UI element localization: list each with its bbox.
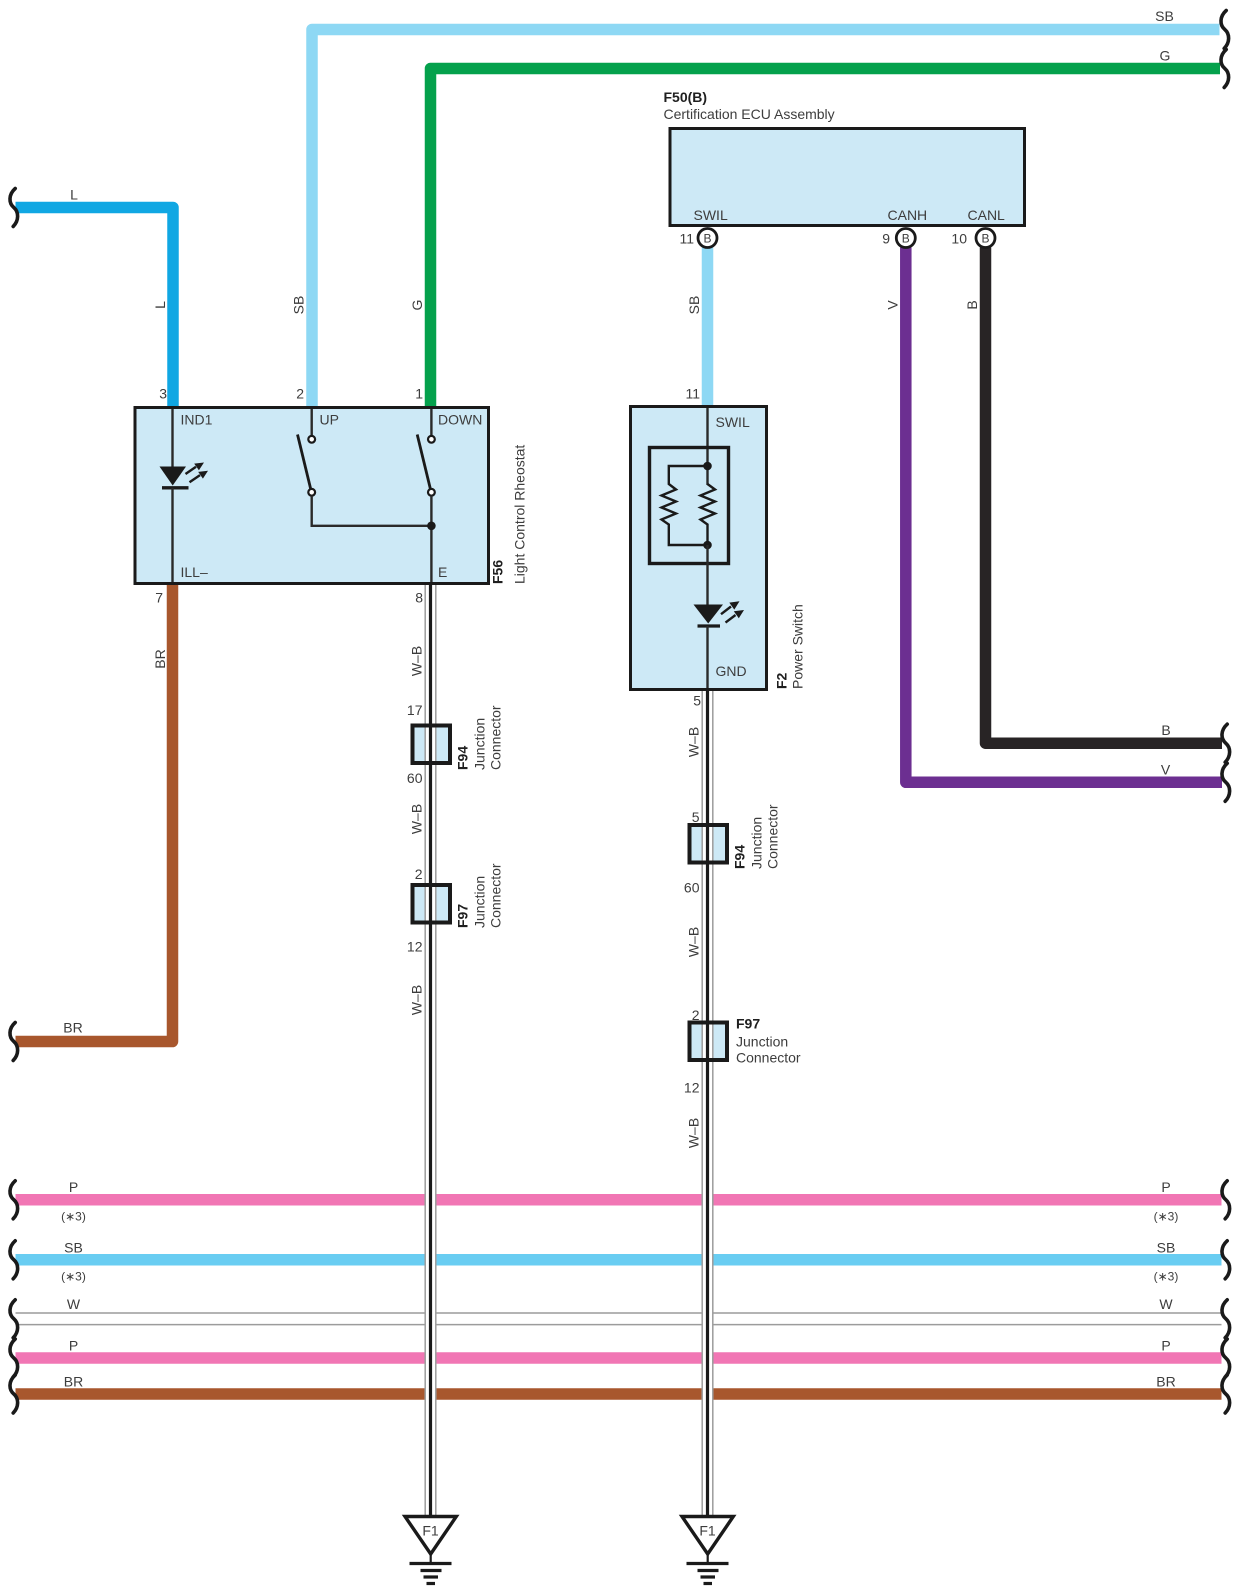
svg-text:BR: BR: [63, 1020, 82, 1036]
wire W-B right: F2 pin 5 (GND) down to ground F1: [702, 688, 713, 1516]
ground F1 (left): [405, 1517, 456, 1584]
svg-text:CANH: CANH: [888, 207, 928, 223]
svg-text:W: W: [67, 1296, 81, 1312]
svg-text:11: 11: [685, 386, 700, 402]
svg-text:W–B: W–B: [409, 646, 425, 676]
svg-text:G: G: [409, 300, 425, 311]
svg-text:11: 11: [679, 231, 694, 247]
svg-text:Connector: Connector: [736, 1050, 801, 1066]
connector F94 (left wire): [413, 724, 451, 766]
svg-text:W: W: [1159, 1296, 1173, 1312]
wire-break squiggle W bus left: [10, 1300, 18, 1338]
connector F94 (right wire): [690, 823, 728, 865]
wire GND internal (F2): [706, 626, 708, 688]
svg-text:IND1: IND1: [181, 412, 213, 428]
wire IND1 internal (F56): [171, 409, 173, 467]
wire SB SWIL: ECU pin 11 down to F2 pin 11: [702, 248, 714, 411]
power switch F2 box: [631, 407, 767, 690]
LED D2 in F2: [694, 601, 745, 626]
svg-text:W–B: W–B: [686, 727, 702, 757]
wire P bus 1 (pink, horizontal): [16, 1194, 1222, 1206]
svg-text:BR: BR: [1156, 1374, 1175, 1390]
svg-text:DOWN: DOWN: [438, 412, 482, 428]
svg-text:P: P: [69, 1179, 78, 1195]
rheostat F56 box: [135, 408, 489, 584]
svg-text:L: L: [70, 187, 78, 203]
wire-break squiggle G right: [1221, 50, 1229, 88]
wire-break squiggle L left: [10, 189, 18, 227]
svg-text:F2: F2: [774, 672, 790, 689]
wire internal mid (F2): [706, 545, 708, 605]
svg-text:P: P: [1161, 1179, 1170, 1195]
wire-break squiggle P bus2 right: [1222, 1339, 1230, 1377]
svg-text:F1: F1: [422, 1523, 439, 1539]
wire-break squiggle BR bus right: [1222, 1375, 1230, 1413]
svg-text:F56: F56: [490, 560, 506, 584]
resistor R1 (left branch, F2): [662, 466, 708, 545]
svg-text:9: 9: [882, 231, 890, 247]
svg-text:10: 10: [951, 231, 967, 247]
wire SB bus (light blue, horizontal): [16, 1254, 1222, 1266]
wire-break squiggle B right: [1222, 724, 1230, 762]
svg-text:F97: F97: [736, 1016, 760, 1032]
wire V: ECU pin 9 (CANH) down and right to edge: [906, 248, 1222, 783]
svg-text:2: 2: [692, 1007, 700, 1023]
svg-text:E: E: [438, 564, 447, 580]
svg-text:B: B: [1161, 722, 1170, 738]
svg-text:SB: SB: [1155, 8, 1174, 24]
svg-text:F94: F94: [455, 746, 471, 770]
svg-text:(∗3): (∗3): [61, 1270, 86, 1284]
wire SB: F56 pin 2 up and across top to right edge: [312, 30, 1220, 411]
svg-text:V: V: [1161, 762, 1171, 778]
svg-text:B: B: [703, 232, 711, 246]
svg-text:Certification ECU Assembly: Certification ECU Assembly: [664, 106, 835, 122]
node dot top (F2): [703, 462, 712, 471]
svg-text:GND: GND: [716, 663, 747, 679]
svg-text:Junction: Junction: [472, 876, 488, 928]
wire-break squiggle W bus right: [1222, 1300, 1230, 1338]
ground F1 (right): [682, 1517, 733, 1584]
svg-text:SB: SB: [686, 296, 702, 315]
svg-text:Junction: Junction: [736, 1034, 788, 1050]
wire P bus 2 (pink, horizontal): [16, 1352, 1222, 1364]
LED D1 in F56: [160, 463, 209, 488]
svg-text:3: 3: [159, 386, 167, 402]
wire W-B left: F56 pin 8 down to ground F1: [425, 581, 436, 1516]
svg-text:B: B: [981, 232, 989, 246]
svg-text:G: G: [1160, 48, 1171, 64]
svg-text:17: 17: [407, 702, 423, 718]
ECU F50(B) box: [670, 129, 1025, 226]
svg-text:F1: F1: [699, 1523, 716, 1539]
svg-text:UP: UP: [320, 412, 339, 428]
svg-text:Light Control Rheostat: Light Control Rheostat: [512, 445, 528, 584]
svg-text:12: 12: [684, 1080, 700, 1096]
svg-text:SWIL: SWIL: [716, 414, 750, 430]
svg-text:SB: SB: [291, 296, 307, 315]
svg-text:F50(B): F50(B): [664, 89, 708, 105]
svg-text:W–B: W–B: [409, 804, 425, 834]
node junction dot (F56 E): [427, 522, 436, 531]
wire-break squiggle SB top right: [1221, 11, 1229, 49]
svg-text:CANL: CANL: [968, 207, 1006, 223]
svg-text:ILL–: ILL–: [181, 564, 208, 580]
resistor R2 (center branch, F2): [701, 484, 716, 545]
switch DOWN (F56): [417, 409, 435, 582]
wire BR: F56 pin 7 down and left to edge: [16, 582, 173, 1042]
svg-text:W–B: W–B: [409, 985, 425, 1015]
svg-text:Connector: Connector: [488, 705, 504, 770]
wire ILL- internal (F56): [171, 488, 173, 582]
wire L: from left edge across and down to F56 pin 3: [16, 208, 174, 411]
wire-break squiggle P bus2 left: [10, 1339, 18, 1377]
svg-text:F97: F97: [455, 904, 471, 928]
svg-text:(∗3): (∗3): [1154, 1210, 1179, 1224]
svg-text:2: 2: [415, 866, 423, 882]
wire-break squiggle SB bus right: [1222, 1241, 1230, 1279]
wire G: F56 pin 1 up and across to right edge: [431, 69, 1221, 411]
svg-text:7: 7: [155, 590, 163, 606]
node dot bottom (F2): [703, 541, 712, 550]
wire BR bus (brown, horizontal): [16, 1388, 1222, 1400]
svg-text:(∗3): (∗3): [61, 1210, 86, 1224]
svg-text:P: P: [69, 1338, 78, 1354]
pin 9 circle B (CANH): [896, 229, 915, 248]
svg-text:Power Switch: Power Switch: [790, 604, 806, 689]
svg-text:Connector: Connector: [488, 863, 504, 928]
wire-break squiggle SB bus left: [10, 1241, 18, 1279]
svg-text:SWIL: SWIL: [694, 207, 728, 223]
pin 11 circle B (SWIL): [698, 229, 717, 248]
svg-text:2: 2: [296, 386, 304, 402]
wire-break squiggle P bus1 left: [10, 1181, 18, 1219]
svg-text:W–B: W–B: [686, 927, 702, 957]
switch UP (F56): [298, 409, 432, 526]
connector F97 (right wire): [690, 1021, 728, 1063]
resistor block rect (F2): [650, 448, 729, 564]
svg-text:SB: SB: [64, 1240, 83, 1256]
svg-text:SB: SB: [1157, 1240, 1176, 1256]
svg-text:Junction: Junction: [749, 817, 765, 869]
wire-break squiggle V right: [1222, 763, 1230, 801]
wire W bus (white with gray outline, horizontal): [16, 1313, 1222, 1325]
svg-text:P: P: [1161, 1338, 1170, 1354]
svg-text:60: 60: [407, 770, 423, 786]
wire SWIL internal (F2): [706, 408, 708, 485]
wire-break squiggle BR left: [10, 1023, 18, 1061]
svg-text:L: L: [152, 301, 168, 309]
svg-text:BR: BR: [152, 649, 168, 668]
svg-text:12: 12: [407, 939, 423, 955]
svg-text:BR: BR: [64, 1374, 83, 1390]
svg-text:Junction: Junction: [472, 718, 488, 770]
connector F97 (left wire): [413, 883, 451, 925]
svg-text:F94: F94: [732, 845, 748, 869]
svg-text:8: 8: [415, 590, 423, 606]
svg-text:Connector: Connector: [765, 804, 781, 869]
svg-text:B: B: [964, 300, 980, 309]
svg-text:B: B: [902, 232, 910, 246]
pin 10 circle B (CANL): [976, 229, 995, 248]
svg-text:V: V: [885, 300, 901, 310]
svg-text:60: 60: [684, 880, 700, 896]
wire-break squiggle P bus1 right: [1222, 1181, 1230, 1219]
svg-text:(∗3): (∗3): [1154, 1270, 1179, 1284]
wire-break squiggle BR bus left: [10, 1375, 18, 1413]
wire B: ECU pin 10 (CANL) down and right to edge: [986, 248, 1223, 744]
svg-text:5: 5: [692, 809, 700, 825]
svg-text:5: 5: [693, 693, 701, 709]
svg-text:W–B: W–B: [686, 1118, 702, 1148]
svg-text:1: 1: [415, 386, 423, 402]
